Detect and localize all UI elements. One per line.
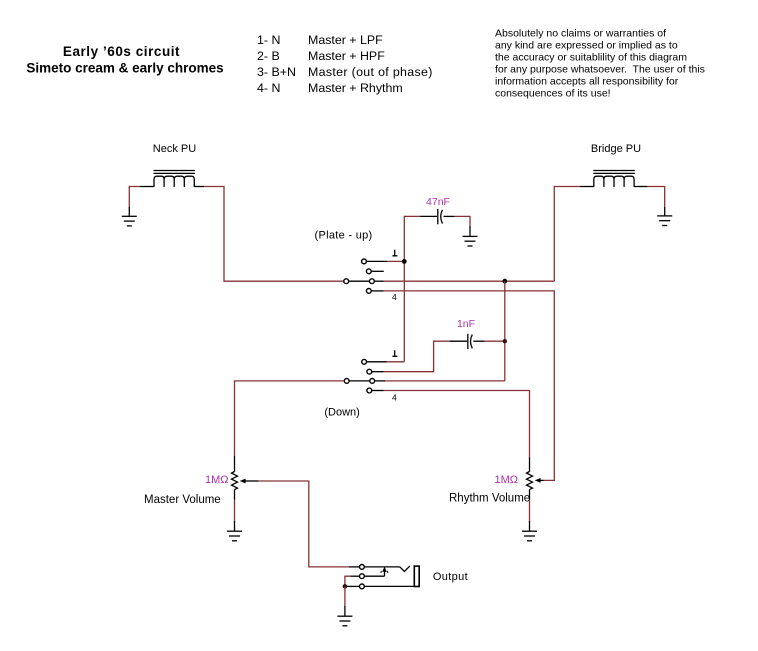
svg-text:4- N: 4- N <box>257 81 280 95</box>
svg-text:47nF: 47nF <box>426 196 450 208</box>
svg-text:Bridge PU: Bridge PU <box>591 143 641 155</box>
wire bridge right <box>648 187 665 208</box>
svg-text:Master + HPF: Master + HPF <box>308 49 385 63</box>
svg-text:Output: Output <box>433 571 468 583</box>
svg-text:consequences of its use!: consequences of its use! <box>495 88 611 100</box>
potentiometer R1 bottom lead <box>234 490 236 500</box>
svg-text:the accuracy or suitablility o: the accuracy or suitablility of this dia… <box>495 52 687 64</box>
svg-text:for any purpose whatsoever. T: for any purpose whatsoever. The user of … <box>495 64 705 76</box>
svg-text:(Down): (Down) <box>324 407 359 419</box>
potentiometer R1 wiper arrow <box>240 479 259 484</box>
wire bridge left down <box>554 187 580 282</box>
potentiometer R1 Master top lead <box>234 456 236 472</box>
disclaimer text <box>495 28 705 100</box>
ground rhythm <box>522 531 537 541</box>
switch S2 pin label 1 <box>392 350 397 356</box>
jack J1 sleeve contact <box>347 584 414 589</box>
wire neck left <box>129 187 139 208</box>
switch S2 contact 1 <box>362 359 387 364</box>
ground jack <box>337 616 352 626</box>
node A junction dot <box>402 259 407 264</box>
wire S1 row4 to rhythm wiper <box>384 291 555 481</box>
wire common right <box>384 280 555 282</box>
ground 47nF <box>463 236 478 246</box>
node D junction dot <box>343 584 348 589</box>
ground jack stem <box>344 606 346 616</box>
svg-text:4: 4 <box>392 292 397 302</box>
svg-text:Early ’60s circuit: Early ’60s circuit <box>63 44 180 59</box>
svg-text:1MΩ: 1MΩ <box>494 474 518 486</box>
wire 47nF right to ground <box>455 216 470 226</box>
svg-text:4: 4 <box>392 392 397 402</box>
wire jack middle to sleeve <box>345 576 350 586</box>
potentiometer R2 Rhythm top lead <box>529 457 531 472</box>
svg-text:3- B+N: 3- B+N <box>257 65 296 79</box>
inductor L2 Bridge PU humps <box>594 176 634 187</box>
svg-text:Simeto cream & early chromes: Simeto cream & early chromes <box>26 61 223 76</box>
wire jack ground <box>344 586 346 606</box>
wire node B down <box>504 281 506 381</box>
wire S2 common left to master pot <box>235 381 345 456</box>
svg-text:Master Volume: Master Volume <box>144 494 221 506</box>
ground rhythm stem <box>529 521 531 531</box>
switch S1 pin label 1 <box>392 250 397 256</box>
jack J1 middle contact <box>350 574 384 579</box>
svg-text:1nF: 1nF <box>457 318 475 330</box>
wire node A vertical <box>403 261 405 361</box>
switch S1 contact 4 <box>366 289 383 294</box>
jack J1 body <box>414 566 419 586</box>
svg-text:Absolutely no claims or warran: Absolutely no claims or warranties of <box>495 28 666 40</box>
svg-text:information accepts all respon: information accepts all responsibility f… <box>495 76 679 88</box>
inductor L2 Bridge PU core lines <box>593 171 635 174</box>
jack J1 tip contact <box>349 565 400 570</box>
ground bridge <box>657 216 672 226</box>
ground master <box>227 531 242 541</box>
svg-text:(Plate - up): (Plate - up) <box>315 230 373 242</box>
inductor L1 leads <box>140 186 205 188</box>
wire rhythm bottom <box>529 500 531 522</box>
capacitor C1 curved plate <box>441 210 443 224</box>
wire master bottom <box>234 500 236 522</box>
svg-text:1- N: 1- N <box>257 33 280 47</box>
jack J1 switch riser arrow <box>381 567 388 577</box>
potentiometer R2 zigzag <box>527 472 533 490</box>
node C junction dot <box>503 339 507 343</box>
capacitor C2 curved plate <box>471 335 473 349</box>
svg-text:any kind are expressed or impl: any kind are expressed or implied as to <box>495 40 678 52</box>
ground neck <box>122 216 137 226</box>
svg-text:Neck PU: Neck PU <box>153 143 196 155</box>
svg-text:2- B: 2- B <box>257 49 280 63</box>
jack J1 tip spring notch <box>400 566 410 572</box>
svg-text:1MΩ: 1MΩ <box>205 474 229 486</box>
wire 1nF left to S2 contact2 <box>384 341 450 372</box>
ground master stem <box>234 521 236 531</box>
wire S2 common right <box>385 380 505 382</box>
wire S2 row4 to rhythm pot top <box>384 391 530 458</box>
switch S1 contact 2 stub <box>366 269 383 274</box>
inductor L1 Neck PU core lines <box>154 171 196 174</box>
switch S1 pole contacts <box>344 279 384 284</box>
wire S2 contact1 red <box>387 361 405 363</box>
svg-text:Master (out of phase): Master (out of phase) <box>308 65 433 79</box>
switch S2 pole contacts <box>344 379 385 384</box>
wire 47nF left <box>404 216 420 261</box>
ground bridge stem <box>664 207 666 216</box>
potentiometer R2 wiper arrow <box>535 478 544 483</box>
capacitor C1 leads <box>420 215 454 217</box>
svg-text:Master + LPF: Master + LPF <box>308 33 383 47</box>
capacitor C2 straight plate <box>467 334 469 349</box>
wire master wiper to jack tip <box>259 481 349 567</box>
svg-text:Master + Rhythm: Master + Rhythm <box>308 81 403 95</box>
potentiometer R1 zigzag <box>232 472 238 490</box>
capacitor C1 straight plate <box>437 209 439 224</box>
inductor L2 leads <box>580 186 648 188</box>
svg-text:Rhythm Volume: Rhythm Volume <box>449 493 530 505</box>
switch S2 contact 4 <box>367 388 384 393</box>
wire 1nF right <box>485 340 505 342</box>
switch S1 contact 1 <box>362 259 388 264</box>
ground neck stem <box>128 207 130 216</box>
switch S2 contact 2 <box>367 369 384 374</box>
potentiometer R2 bottom lead <box>529 490 531 500</box>
inductor L1 Neck PU humps <box>154 176 194 187</box>
wire neck right to switch common <box>204 187 344 282</box>
capacitor C2 leads <box>450 340 485 342</box>
ground 47nF stem <box>469 226 471 236</box>
wire S1 contact1 to node <box>387 260 404 262</box>
node B junction dot <box>502 279 507 284</box>
